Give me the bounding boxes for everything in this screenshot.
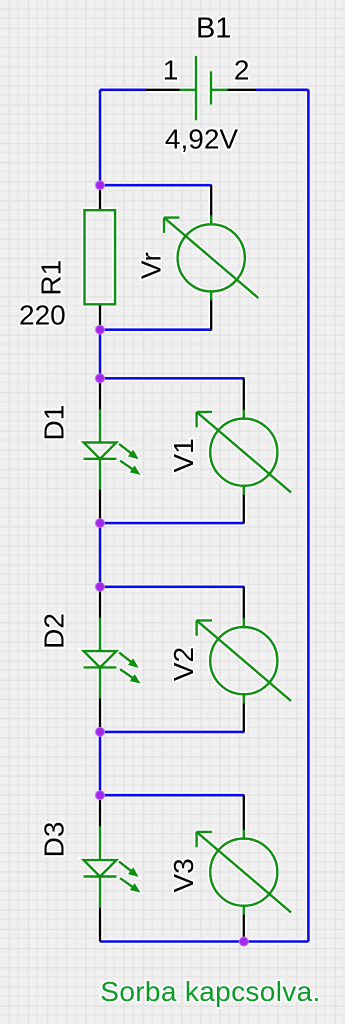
wire V1 bottom (100, 522, 244, 525)
resistor R1 body (85, 210, 116, 304)
LED D3 cathode bar (84, 875, 117, 877)
junction V1 top (95, 373, 105, 383)
svg-text:2: 2 (234, 54, 250, 85)
wire V1 top (100, 377, 244, 380)
voltmeter V2 arrow barbs (197, 620, 212, 635)
LED D3 triangle (84, 860, 117, 876)
LED D2 cathode bar (84, 666, 117, 668)
wire left rail seg3 (99, 523, 102, 587)
svg-text:B1: B1 (196, 13, 231, 45)
LED D2 light arrow heads (129, 659, 140, 683)
wire V2 bottom (100, 731, 244, 734)
voltmeter V2 top stub (243, 618, 245, 628)
svg-text:1: 1 (163, 54, 179, 85)
LED D1 light arrows shafts (119, 444, 133, 470)
svg-text:D3: D3 (39, 822, 70, 858)
svg-text:4,92V: 4,92V (165, 124, 238, 155)
voltmeter V2 bottom stub (243, 693, 245, 703)
voltmeter V1 arrow shaft (197, 412, 291, 493)
svg-text:Vr: Vr (136, 252, 167, 279)
junction V1 bottom (95, 518, 105, 528)
resistor R1 bottom pin (99, 304, 101, 329)
wire Vr bottom (100, 328, 212, 331)
voltmeter Vr arrow shaft (164, 218, 258, 299)
svg-text:V3: V3 (168, 858, 199, 892)
battery B1 stub 2 (211, 89, 227, 91)
wire left rail seg4 (99, 732, 102, 795)
voltmeter V2 circle (210, 627, 277, 694)
svg-text:D1: D1 (39, 405, 70, 441)
wire left rail seg1 (99, 90, 102, 185)
LED D3 bottom pin (99, 908, 101, 942)
resistor R1 top pin (99, 185, 101, 210)
LED D1 cathode lead (99, 459, 101, 490)
svg-text:D2: D2 (39, 613, 70, 649)
voltmeter V2 arrow shaft (197, 620, 291, 701)
battery B1 pin 2 (227, 89, 256, 91)
svg-text:V2: V2 (168, 647, 199, 681)
LED D2 anode lead (99, 618, 101, 651)
wire left rail seg2 (99, 330, 102, 379)
voltmeter V3 bottom pin (243, 914, 245, 942)
LED D2 bottom pin (99, 698, 101, 732)
voltmeter Vr bottom stub (210, 290, 212, 300)
voltmeter V1 circle (210, 419, 277, 486)
LED D1 bottom pin (99, 489, 101, 523)
voltmeter Vr top stub (210, 215, 212, 225)
voltmeter V1 top pin (243, 378, 245, 410)
wire V3 top (100, 794, 244, 797)
junction V3 bottom pin (239, 937, 249, 947)
junction V2 top (95, 582, 105, 592)
wire right rail (307, 90, 310, 942)
voltmeter V3 top pin (243, 795, 245, 831)
voltmeter V1 bottom pin (243, 494, 245, 523)
LED D2 top pin (99, 587, 101, 619)
svg-text:R1: R1 (36, 260, 67, 296)
svg-text:V1: V1 (168, 438, 199, 472)
battery B1 plate short (210, 71, 212, 104)
svg-text:220: 220 (19, 299, 66, 330)
voltmeter Vr arrow barbs (164, 218, 179, 233)
LED D3 anode lead (99, 826, 101, 860)
LED D1 triangle (84, 443, 117, 459)
voltmeter V3 bottom stub (243, 905, 245, 915)
LED D2 cathode lead (99, 667, 101, 698)
white wire casing (84, 56, 309, 942)
wire Vr top (100, 184, 212, 187)
voltmeter V3 circle (210, 839, 277, 906)
voltmeter V1 top stub (243, 410, 245, 420)
battery B1 stub 1 (180, 89, 197, 91)
battery B1 pin 1 (146, 89, 180, 91)
voltmeter V1 bottom stub (243, 485, 245, 495)
LED D3 top pin (99, 795, 101, 827)
voltmeter Vr bottom pin (210, 299, 212, 329)
junction V2 bottom (95, 727, 105, 737)
junction V3 top (95, 790, 105, 800)
svg-text:Sorba kapcsolva.: Sorba kapcsolva. (100, 976, 320, 1007)
LED D2 triangle (84, 651, 117, 667)
LED D1 anode lead (99, 409, 101, 442)
wire battery right (256, 89, 308, 92)
LED D3 cathode lead (99, 877, 101, 909)
voltmeter V3 top stub (243, 830, 245, 840)
battery B1 plate long (195, 56, 197, 120)
voltmeter V3 arrow shaft (197, 832, 291, 913)
junction Vr top (95, 180, 105, 190)
wire bottom rail (100, 940, 308, 943)
LED D3 light arrows shafts (119, 862, 133, 888)
voltmeter V2 bottom pin (243, 702, 245, 732)
LED D1 cathode bar (84, 458, 117, 460)
LED D2 light arrows shafts (119, 653, 133, 679)
LED D3 light arrow heads (129, 868, 140, 892)
LED D1 top pin (99, 378, 101, 410)
voltmeter Vr top pin (210, 185, 212, 216)
LED D1 light arrow heads (129, 451, 140, 475)
voltmeter V2 top pin (243, 587, 245, 619)
voltmeter Vr circle (178, 224, 245, 291)
voltmeter V3 arrow barbs (197, 832, 212, 847)
junction Vr bottom (95, 325, 105, 335)
voltmeter V1 arrow barbs (197, 412, 212, 427)
wire V2 top (100, 585, 244, 588)
wire battery left (100, 89, 146, 92)
